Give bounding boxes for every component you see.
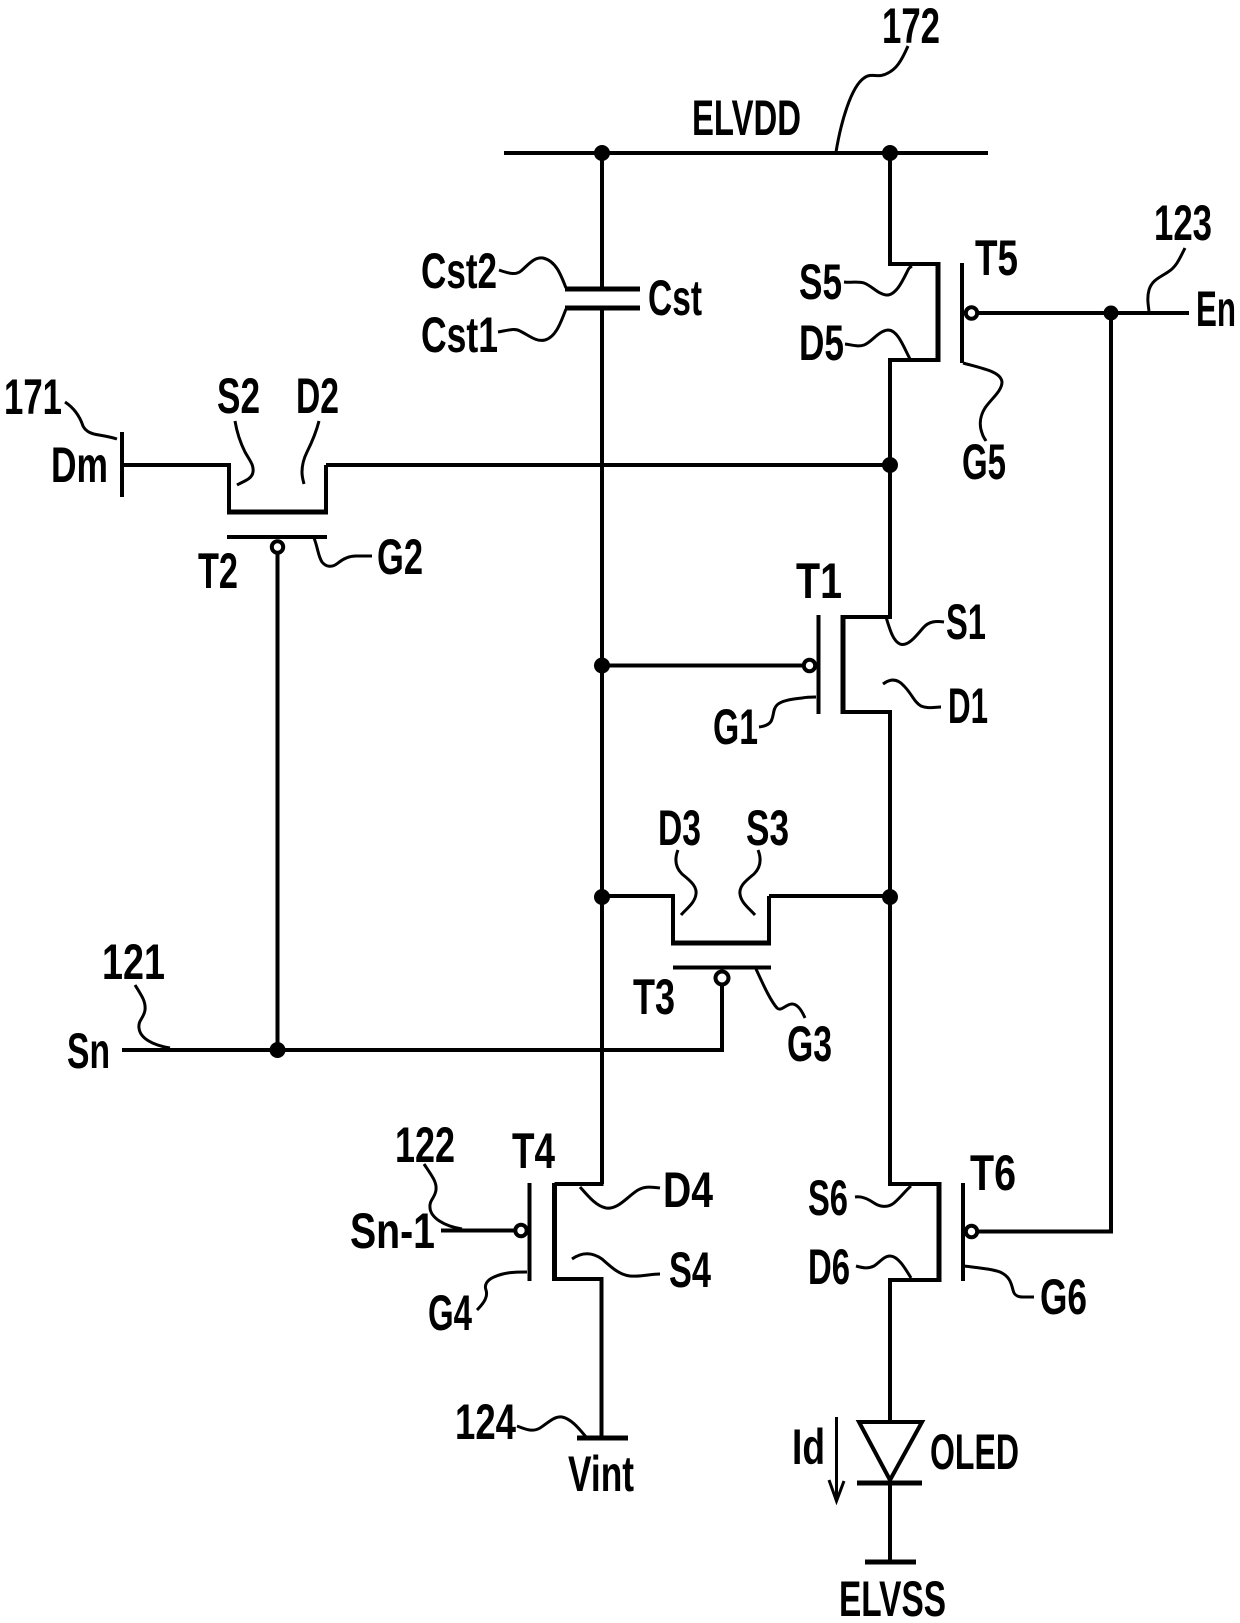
transistor T4 channel bar [552, 1183, 557, 1281]
wire ELVDD power rail [504, 151, 988, 155]
leader S4 [572, 1254, 660, 1276]
junction: T5 drain / T1 source node [882, 457, 898, 473]
svg-text:D1: D1 [948, 678, 988, 734]
transistor T6 gate bubble [966, 1226, 977, 1237]
svg-text:D3: D3 [658, 800, 701, 856]
leader D4 [580, 1187, 660, 1208]
leader D5 [845, 330, 910, 359]
leader 123 [1148, 248, 1185, 311]
transistor T4 gate bubble [515, 1225, 526, 1236]
svg-text:ELVSS: ELVSS [839, 1571, 946, 1623]
svg-text:S3: S3 [746, 800, 789, 856]
wire OLED cathode to ELVSS [888, 1485, 892, 1561]
wire T4 source to Vint [600, 1279, 604, 1437]
leader G1 [759, 697, 816, 727]
svg-text:T3: T3 [633, 969, 675, 1025]
wire T2 gate vertical to Sn [276, 554, 280, 1050]
current arrow Id [829, 1417, 844, 1501]
svg-text:ELVDD: ELVDD [692, 90, 801, 146]
wire node N1 vertical (Cst bottom to T4 drain) [600, 310, 604, 1184]
wire En vertical [979, 313, 1111, 1232]
leader S3 [740, 850, 760, 915]
transistor T2 gate bubble [272, 541, 283, 552]
capacitor Cst bottom plate (Cst1) [565, 306, 640, 311]
wire T3 gate lead down [720, 985, 724, 1052]
junction: T5 source on ELVDD rail [882, 145, 898, 161]
transistor T3 gate bubble [716, 972, 729, 985]
transistor T4 gate bar [528, 1183, 532, 1281]
transistor T2 gate bar [227, 535, 327, 539]
svg-text:T4: T4 [512, 1123, 555, 1179]
svg-text:En: En [1196, 281, 1236, 337]
svg-text:123: 123 [1154, 195, 1212, 251]
transistor T5 channel bar [936, 262, 941, 362]
transistor T6 top stub [888, 1182, 939, 1186]
svg-text:S6: S6 [808, 1170, 848, 1226]
transistor T6 channel bar [937, 1182, 942, 1282]
wire Sn-1 to T4 gate [441, 1229, 514, 1233]
junction: En line on T5 gate wire [1104, 306, 1119, 321]
svg-text:G1: G1 [713, 699, 758, 755]
leader S1 [886, 617, 944, 645]
junction: T3 drain on node N1 [594, 889, 610, 905]
transistor T6 source lead [888, 896, 892, 1186]
svg-text:S2: S2 [217, 368, 260, 424]
leader 172 [836, 46, 908, 152]
leader G5 [963, 363, 1002, 441]
svg-text:S1: S1 [946, 594, 986, 650]
svg-text:D2: D2 [296, 368, 339, 424]
transistor T2 source drop [227, 465, 231, 512]
wire Sn scan line [122, 1048, 724, 1052]
leader 122 [424, 1164, 462, 1229]
leader Cst1 [498, 309, 566, 340]
svg-text:Cst1: Cst1 [421, 307, 498, 363]
leader S6 [855, 1186, 911, 1206]
svg-text:Sn-1: Sn-1 [350, 1203, 435, 1259]
ground ELVSS bar [865, 1560, 916, 1565]
terminal Vint bar (124) [577, 1436, 628, 1441]
leader G2 [314, 538, 372, 566]
wire T1 gate to node N1 [602, 664, 802, 668]
wire T3 source to T1/T6 node [769, 894, 890, 898]
svg-text:OLED: OLED [930, 1424, 1019, 1480]
transistor T4 bottom stub [555, 1277, 604, 1281]
svg-text:124: 124 [455, 1394, 516, 1450]
leader S2 [235, 421, 253, 485]
svg-text:Id: Id [792, 1419, 825, 1475]
transistor T1 source lead [888, 465, 892, 619]
wire Cst top lead [600, 153, 604, 287]
svg-text:Cst: Cst [648, 270, 702, 326]
leader D2 [302, 421, 319, 484]
transistor T3 gate bar [673, 966, 771, 970]
transistor T5 gate bubble [966, 307, 977, 318]
transistor T5 bottom stub [888, 358, 938, 362]
wire T3 drain from node N1 [602, 894, 675, 898]
svg-text:T5: T5 [975, 230, 1018, 286]
svg-text:122: 122 [395, 1117, 455, 1173]
svg-text:T6: T6 [970, 1145, 1016, 1201]
junction: T1 drain / T3 / T6 node [882, 889, 898, 905]
leader 121 [135, 985, 170, 1048]
leader G4 [477, 1272, 527, 1310]
transistor T5 drain lead [888, 360, 892, 467]
diode OLED triangle [859, 1422, 922, 1480]
transistor T1 top stub [843, 615, 892, 619]
transistor T2 channel bottom bar [227, 510, 328, 515]
transistor T5 source lead [888, 153, 892, 266]
junction: T1 gate on node N1 [594, 658, 610, 674]
wire T5 gate to En [979, 311, 1189, 315]
svg-text:171: 171 [4, 369, 62, 425]
svg-text:G5: G5 [962, 434, 1006, 490]
svg-text:G6: G6 [1040, 1269, 1087, 1325]
transistor T5 gate bar [960, 263, 964, 363]
svg-text:D4: D4 [663, 1162, 713, 1218]
leader G3 [756, 969, 805, 1018]
leader Cst2 [499, 258, 566, 288]
wire T6 drain to OLED anode [888, 1280, 892, 1424]
transistor T1 bottom stub [843, 710, 892, 714]
leader D3 [676, 850, 696, 915]
svg-text:S5: S5 [799, 254, 842, 310]
svg-text:172: 172 [882, 0, 940, 54]
leader D6 [856, 1256, 911, 1278]
capacitor Cst top plate (Cst2) [565, 287, 640, 292]
svg-text:S4: S4 [669, 1242, 711, 1298]
junction: T2 gate on Sn line [270, 1042, 286, 1058]
transistor T1 drain lead [888, 712, 892, 899]
svg-text:Sn: Sn [67, 1023, 110, 1079]
leader D1 [883, 680, 941, 708]
svg-text:G3: G3 [787, 1016, 832, 1072]
transistor T6 bottom stub [888, 1278, 939, 1282]
transistor T4 top stub [555, 1182, 604, 1186]
transistor T2 drain rise [324, 465, 328, 512]
wire T2 drain to T5/T1 node [326, 463, 890, 467]
transistor T5 top stub [888, 262, 938, 266]
wire T6 gate to En line [979, 1230, 1111, 1234]
terminal Dm (171) input bar [120, 432, 124, 497]
leader 171 [65, 402, 117, 439]
leader G6 [964, 1266, 1034, 1297]
transistor T1 channel bar [841, 615, 846, 714]
leader 124 [517, 1417, 587, 1438]
svg-text:D6: D6 [808, 1239, 850, 1295]
svg-text:T2: T2 [198, 543, 238, 599]
svg-text:Vint: Vint [568, 1446, 634, 1502]
svg-text:Dm: Dm [51, 437, 108, 493]
leader S5 [844, 266, 912, 295]
svg-text:G2: G2 [377, 529, 423, 585]
svg-text:T1: T1 [796, 553, 842, 609]
junction: Cst top on ELVDD rail [594, 145, 610, 161]
transistor T6 gate bar [961, 1183, 965, 1281]
svg-text:Cst2: Cst2 [421, 243, 497, 299]
transistor T3 source rise [767, 896, 771, 943]
diode OLED cathode bar [857, 1481, 922, 1486]
svg-text:D5: D5 [799, 315, 844, 371]
transistor T3 channel bottom bar [671, 941, 771, 946]
svg-text:G4: G4 [428, 1285, 472, 1341]
transistor T1 gate bar [817, 615, 821, 714]
transistor T1 gate bubble [804, 660, 815, 671]
svg-text:121: 121 [102, 934, 165, 990]
wire Dm to T2 source [122, 463, 231, 467]
transistor T3 drain drop [671, 896, 675, 943]
